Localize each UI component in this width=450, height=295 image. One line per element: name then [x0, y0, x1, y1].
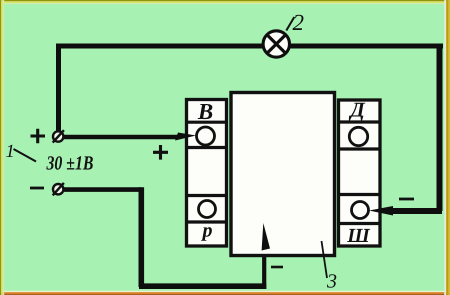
wire: from − terminal right	[63, 187, 142, 192]
divider under Д box	[337, 120, 381, 123]
svg-text:30 ±1В: 30 ±1В	[46, 153, 94, 175]
label + near В wire	[153, 145, 168, 160]
svg-text:Д: Д	[348, 98, 365, 122]
svg-text:Ш: Ш	[346, 225, 371, 247]
svg-text:1: 1	[6, 142, 15, 162]
divider under р-row circle box	[185, 220, 227, 223]
arrow into В-row terminal circle	[175, 133, 196, 141]
left terminal block column	[187, 100, 227, 247]
wire: vertical up into regulator bottom	[262, 250, 266, 289]
arrow from bottom wire up into regulator	[262, 223, 270, 251]
divider under В box	[185, 121, 227, 124]
terminal circle р row	[199, 201, 216, 218]
label − near right wire	[399, 198, 414, 201]
divider under В-row circle box	[185, 146, 227, 149]
terminal circle Д row	[349, 127, 367, 145]
minus label near bottom arrow	[271, 266, 283, 269]
leader line from 1	[14, 149, 37, 162]
svg-text:3: 3	[326, 271, 337, 293]
leader line to label 2	[286, 17, 294, 31]
lamp HL (2)	[263, 31, 289, 57]
terminal circle В row	[197, 127, 215, 145]
wire: bottom horizontal run	[139, 283, 266, 289]
+ terminal (power input)	[53, 130, 64, 142]
arrow into Ш-row terminal circle	[369, 206, 393, 216]
− terminal (power input)	[53, 183, 64, 195]
wire: vertical down at x=141	[139, 187, 145, 287]
svg-text:2: 2	[293, 10, 305, 35]
leader line from 3	[322, 241, 328, 278]
wire: top run from node + vertical to lamp and on to right side	[56, 44, 443, 49]
divider under Ш-row circle box	[337, 222, 381, 225]
right terminal block column	[339, 100, 381, 246]
regulator unit 3 (central block)	[231, 93, 335, 256]
wire: left vertical from top run down to + terminal	[56, 44, 61, 131]
terminal circle Ш row	[352, 202, 369, 219]
wire: right horizontal toward Ш-row terminal	[391, 208, 442, 214]
divider under Д-row circle box	[337, 147, 381, 150]
wire: right vertical from top run down	[437, 46, 443, 211]
svg-text:В: В	[197, 99, 213, 124]
wire: from + terminal to В-row terminal	[63, 135, 180, 140]
svg-text:р: р	[201, 220, 213, 242]
label + at power input	[31, 129, 46, 143]
label − at power input	[30, 187, 44, 190]
divider above р-row circle box	[185, 194, 227, 197]
divider above Ш-row circle box	[337, 193, 381, 196]
